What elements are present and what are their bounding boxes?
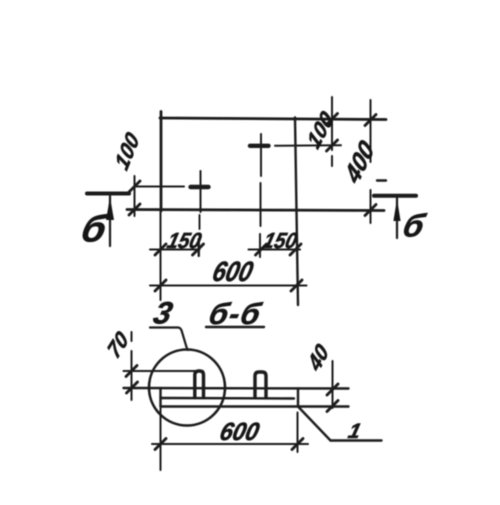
dim text 600 plan: [209, 256, 256, 288]
dimension line 400: [370, 100, 372, 223]
label 3: [150, 296, 176, 330]
tick 40 bottom: [327, 401, 338, 412]
anchor cross 2 thick dash: [250, 144, 269, 148]
dimension line 100 left: [134, 176, 136, 216]
anchor cross 1 centerline vertical: [200, 171, 202, 212]
dimension line 40: [332, 361, 334, 408]
section letter b right: [399, 208, 429, 243]
anchor cross 1 centerline horizontal: [135, 186, 185, 188]
label 1: [346, 419, 364, 443]
anchor cross 1 thick dash: [191, 185, 209, 189]
tick 600 bottom right: [292, 439, 303, 450]
dim text 40: [303, 339, 333, 377]
tick 600 right: [291, 280, 302, 291]
tick 150 at 295: [290, 244, 301, 255]
section mark right arrowhead: [393, 199, 400, 221]
section letter b left: [77, 208, 112, 250]
extension line bottom-left vertical: [160, 408, 162, 470]
plan view: plate outline left edge: [160, 112, 163, 212]
section mark left bar: [87, 192, 129, 196]
tick 400 top: [365, 115, 376, 126]
svg-text:600: 600: [209, 256, 256, 288]
tick 70 bottom: [127, 382, 138, 393]
dimension line 600 plan: [150, 285, 307, 287]
tick 100 left top: [129, 181, 140, 192]
anchor cross 2 centerline horizontal to right: [275, 144, 341, 147]
section: anchor top extension line: [124, 370, 204, 372]
section: line under label 1: [331, 439, 382, 441]
tick 150 at 160: [155, 244, 166, 255]
section: plate left end cap: [159, 388, 161, 407]
svg-text:600: 600: [217, 418, 262, 446]
section title b-b: [205, 297, 265, 330]
dim text 400: [340, 135, 379, 190]
section mark left arrow line: [109, 196, 111, 246]
svg-text:б-б: б-б: [205, 297, 265, 330]
tick 600 left: [155, 280, 166, 291]
tick 150 at 261: [256, 244, 267, 255]
dimension line 70: [131, 332, 133, 400]
section mark right bar: [374, 194, 416, 198]
plan view: plate outline top edge: [160, 118, 386, 120]
dim text 100 left: [111, 128, 144, 175]
tick 150 at 198: [193, 244, 204, 255]
tick 70 top: [126, 366, 137, 377]
anchor cross 2 centerline vertical: [260, 134, 261, 257]
svg-text:150: 150: [261, 228, 301, 253]
tick 600 bottom left: [155, 439, 166, 450]
tick 100 left bottom: [129, 204, 140, 215]
plan view: plate outline right edge: [295, 118, 298, 306]
tick 100 top upper: [327, 114, 338, 125]
anchor cross 1 vertical extension dashes: [198, 215, 201, 256]
dimension line 150 left segment: [150, 249, 200, 251]
dim text 100 top: [303, 106, 338, 153]
section mark left arrowhead: [106, 197, 114, 220]
section: anchor 2 U-shape: [255, 372, 266, 398]
tick 400 bottom: [365, 205, 376, 216]
extension line bottom-right vertical: [297, 413, 299, 453]
dim text 150 left: [165, 228, 205, 253]
plan view: plate outline bottom edge: [127, 210, 384, 211]
dimension line 100 top: [331, 97, 333, 166]
dash right of 400: [377, 179, 386, 181]
svg-text:150: 150: [165, 228, 205, 253]
tick 40 top: [327, 384, 338, 395]
section: plate top edge: [124, 387, 349, 390]
tick 100 top lower: [327, 140, 338, 151]
underline of section title: [206, 326, 264, 328]
dim text 70: [103, 326, 132, 363]
dimension line 600 bottom: [152, 443, 308, 445]
section: lower edge line: [161, 405, 349, 407]
extension dash under cross 1: [198, 239, 200, 256]
dim text 150 right: [261, 228, 301, 253]
dimension line 150 right segment: [249, 249, 301, 251]
extension line left of row dims: [160, 211, 162, 300]
section: plate bottom edge: [161, 397, 295, 400]
section: plate right end cap: [297, 389, 299, 407]
section mark right arrow line: [396, 198, 398, 238]
dim text 600 bottom: [217, 418, 262, 446]
leader from label 3: [150, 328, 188, 351]
section: anchor 1 U-shape: [195, 371, 204, 398]
detail circle: [149, 350, 225, 426]
section: bent end diagonal: [298, 407, 331, 441]
